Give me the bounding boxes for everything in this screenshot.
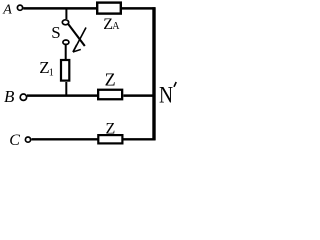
svg-text:N: N	[159, 82, 173, 108]
switch S bottom contact circle	[63, 40, 69, 44]
wire: bottom contact to Z1	[65, 45, 67, 61]
terminal B	[20, 94, 26, 100]
wire C left segment	[31, 138, 97, 140]
right bus wire	[152, 7, 155, 140]
svg-text:C: C	[9, 132, 20, 149]
svg-text:1: 1	[49, 68, 54, 79]
svg-text:Z: Z	[105, 70, 116, 90]
terminal A	[17, 5, 22, 10]
wire A right segment	[122, 7, 156, 10]
switch S stub from top wire	[65, 8, 67, 19]
terminal C	[25, 137, 30, 142]
wire B right segment	[123, 94, 155, 97]
wire B left segment	[27, 94, 98, 97]
svg-text:A: A	[112, 21, 120, 32]
wire: Z1 bottom to B line	[65, 82, 67, 96]
switch S arrow barb up	[73, 45, 77, 52]
impedance Z box (C row)	[98, 135, 122, 143]
svg-text:Z: Z	[106, 121, 116, 138]
switch S arrow barb right	[73, 49, 81, 52]
impedance Z box (B row)	[98, 90, 122, 100]
svg-text:B: B	[4, 87, 15, 106]
switch S motion arrow shaft	[73, 28, 86, 52]
wire C right segment	[123, 138, 155, 140]
svg-text:S: S	[51, 23, 60, 42]
switch S blade	[68, 24, 85, 46]
svg-text:A: A	[2, 3, 12, 18]
impedance Z1 box	[61, 60, 69, 81]
wire A left segment	[23, 7, 96, 10]
impedance ZA box	[97, 3, 121, 14]
switch S top contact circle	[62, 20, 68, 25]
